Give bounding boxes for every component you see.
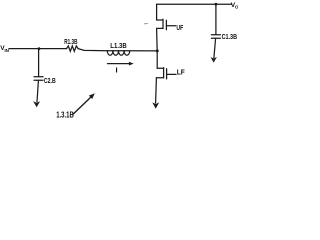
svg-text:LF: LF <box>177 68 185 77</box>
svg-text:I: I <box>116 65 118 74</box>
svg-text:1.3.1B: 1.3.1B <box>56 111 74 120</box>
svg-text:IN: IN <box>4 48 9 53</box>
svg-text:C2.B: C2.B <box>44 76 56 85</box>
svg-text:UF: UF <box>176 23 183 32</box>
svg-text:O: O <box>235 4 238 9</box>
svg-text:L1.3B: L1.3B <box>110 41 126 50</box>
svg-text:C1.3B: C1.3B <box>222 32 237 41</box>
svg-text:R1.3B: R1.3B <box>64 37 78 46</box>
